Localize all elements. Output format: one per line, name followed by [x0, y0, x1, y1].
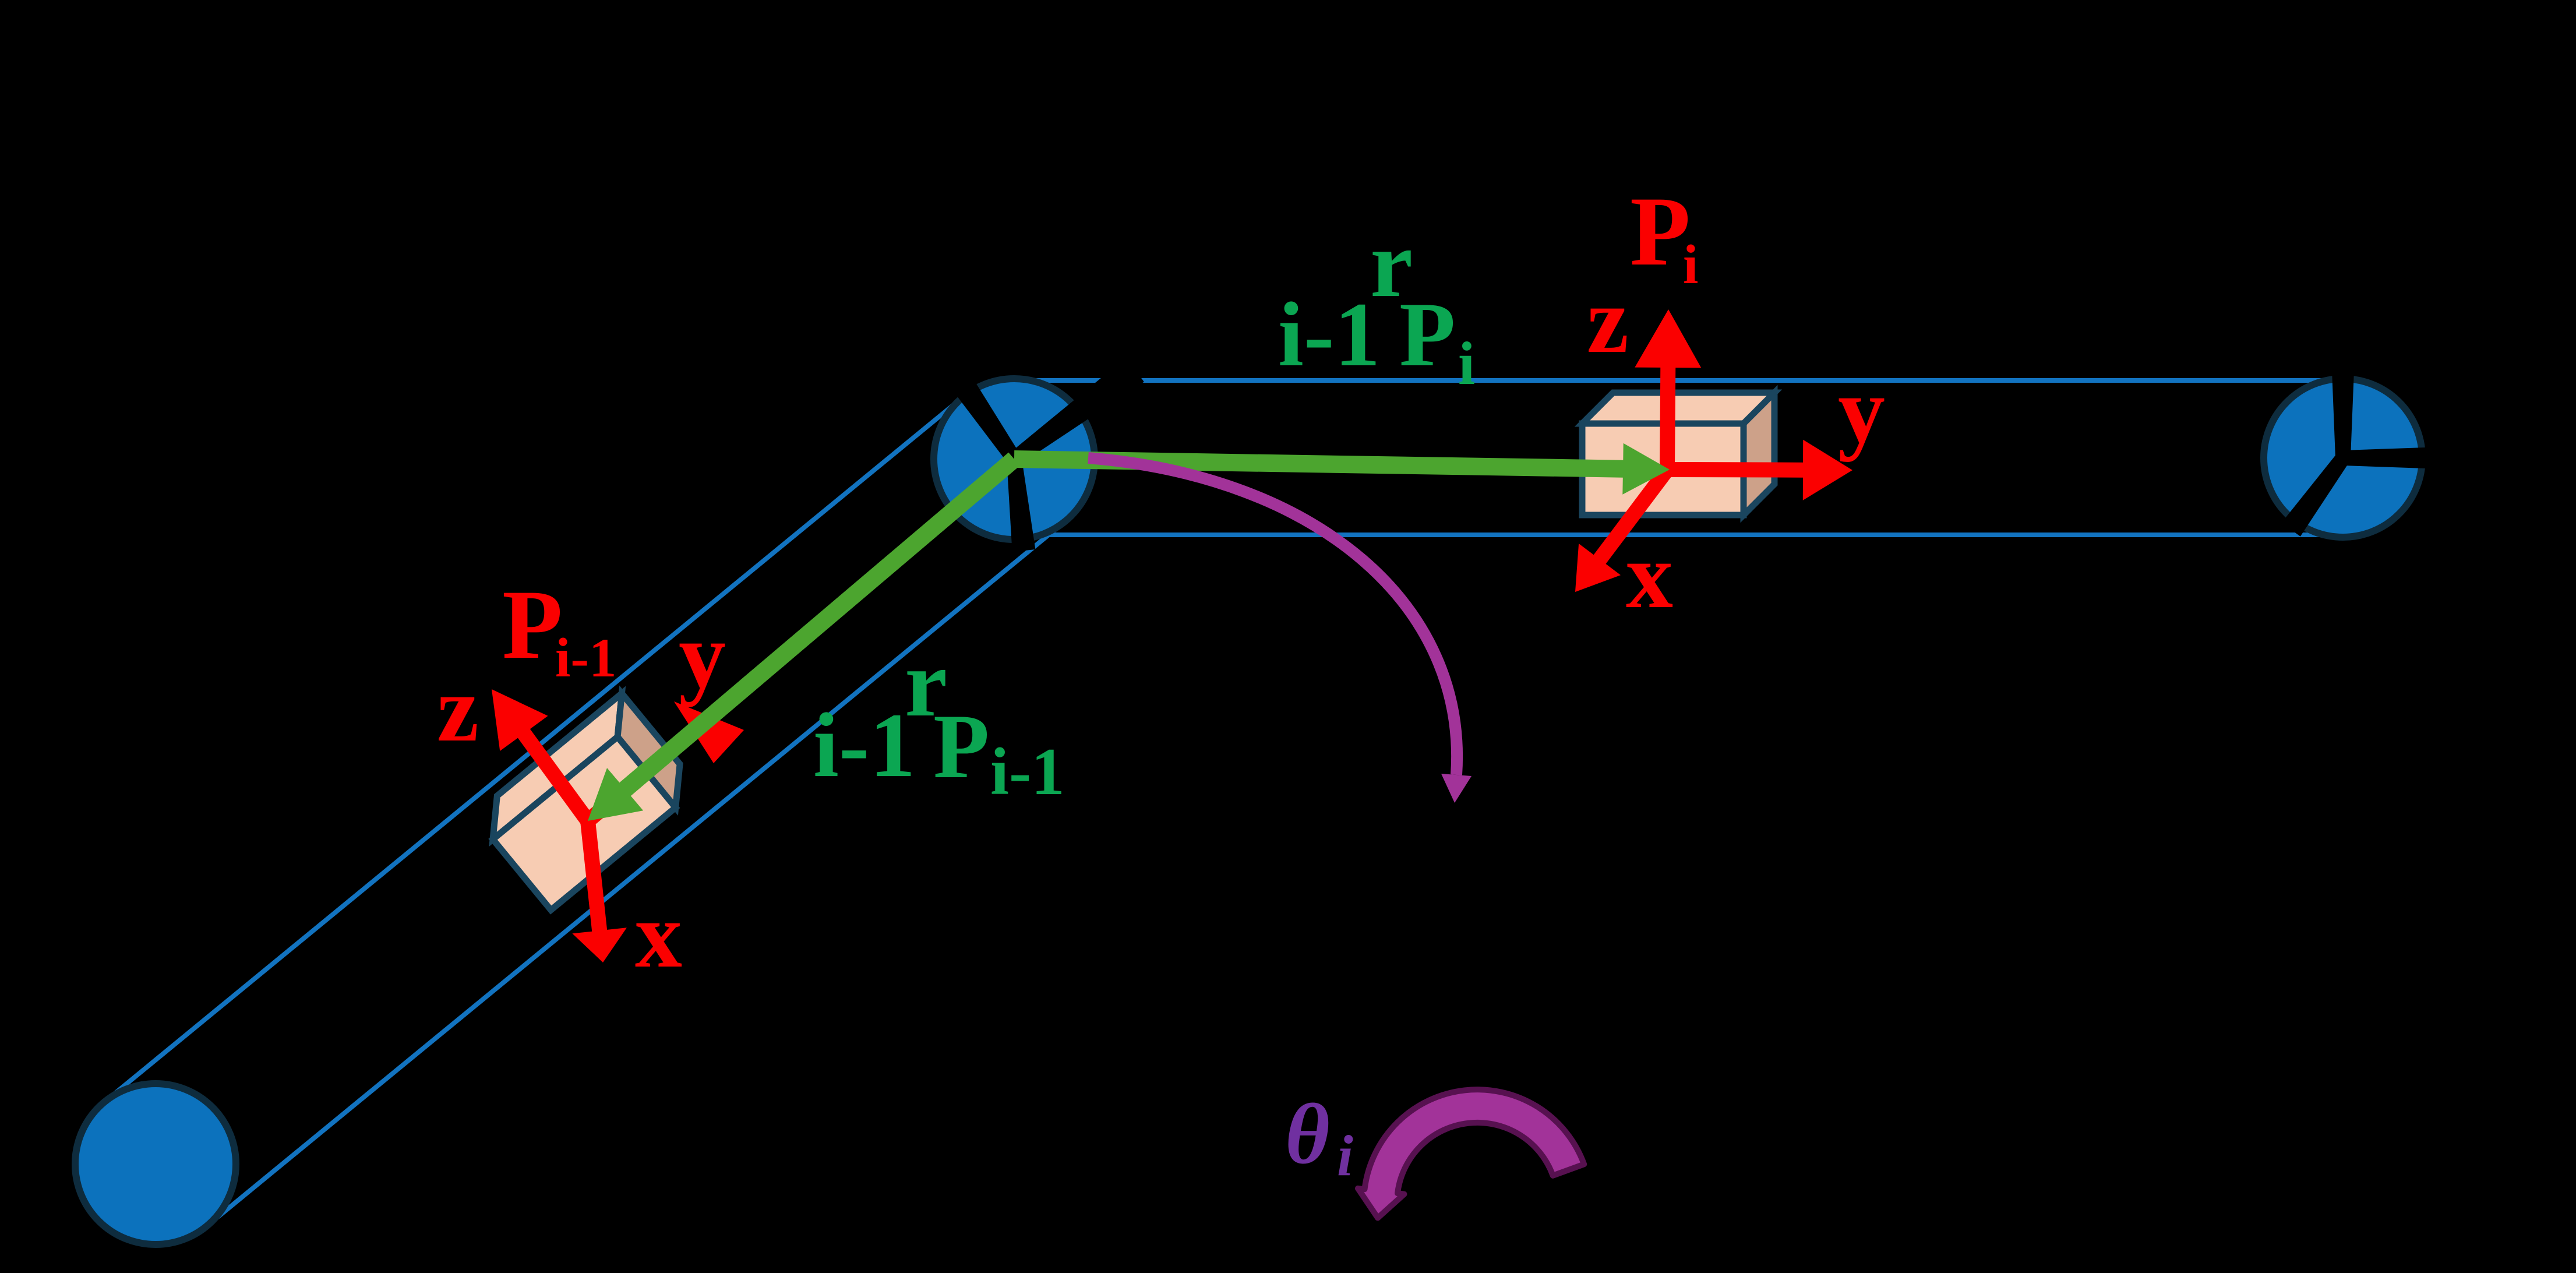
svg-text:P: P — [1630, 177, 1691, 286]
axis z of P_i-1 — [492, 689, 594, 826]
svg-text:y: y — [1838, 358, 1885, 463]
rotation trajectory arc — [1088, 458, 1457, 775]
joint circle middle — [934, 379, 1095, 539]
wire right-link upper edge — [1014, 378, 2343, 383]
svg-text:i-1: i-1 — [813, 694, 916, 796]
wire left-link upper edge — [104, 397, 963, 1102]
frame box P_i — [1582, 393, 1774, 515]
svg-text:z: z — [1587, 269, 1629, 373]
axis z of P_i — [1635, 309, 1701, 470]
svg-text:i-1: i-1 — [555, 627, 617, 689]
joint middle spokes — [954, 379, 1020, 463]
svg-text:i-1: i-1 — [1278, 284, 1381, 386]
axis x of P_i-1 — [572, 820, 627, 962]
svg-text:P: P — [1399, 284, 1456, 386]
svg-text:i-1: i-1 — [990, 735, 1065, 809]
svg-text:i: i — [1337, 1123, 1353, 1188]
svg-text:z: z — [437, 657, 479, 761]
axis y of P_i-1 — [583, 727, 698, 827]
axis y of P_i — [1667, 440, 1852, 500]
frame box P_i-1 — [473, 693, 699, 910]
position vector arrow to P_i-1 — [588, 453, 1020, 821]
joint circle base — [75, 1084, 236, 1244]
svg-text:x: x — [635, 883, 682, 988]
wire left-link lower edge — [207, 521, 1065, 1226]
svg-text:i: i — [1458, 329, 1475, 397]
axis x of P_i — [1575, 465, 1673, 592]
svg-text:P: P — [502, 570, 563, 679]
svg-text:i: i — [1683, 234, 1698, 295]
svg-text:x: x — [1626, 524, 1673, 628]
svg-text:P: P — [933, 696, 990, 798]
theta_i rotation band arrow — [1358, 1089, 1584, 1218]
wire right-link lower edge — [1014, 533, 2343, 537]
svg-text:y: y — [679, 604, 726, 708]
svg-text:θ: θ — [1285, 1087, 1330, 1182]
joint right spokes — [2332, 371, 2354, 458]
position vector arrow to P_i — [1014, 443, 1670, 495]
joint circle right — [2264, 379, 2422, 537]
